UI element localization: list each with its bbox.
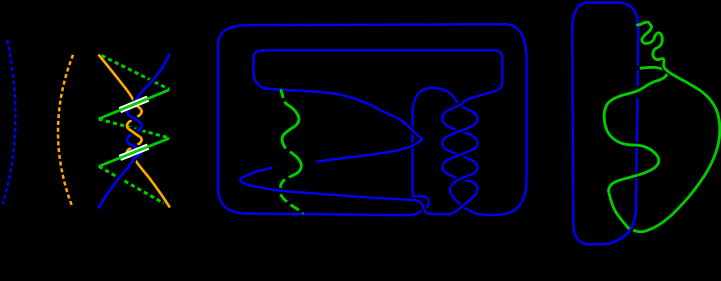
white band 2 bbox=[119, 144, 150, 161]
blue strand bbox=[98, 54, 170, 209]
orange dashed arc bbox=[58, 55, 73, 206]
under-gap of upper lens strand below green band bbox=[273, 162, 317, 168]
attachment gap on blue edge bbox=[636, 66, 639, 70]
blue strand C2: inner loop, swoop, lens, twist bbox=[240, 50, 502, 214]
wide band gap in blue edge at S-top crossing bbox=[637, 86, 641, 98]
green band: curl and big arc bbox=[633, 22, 720, 232]
orange-over patch at middle twist crossing bbox=[128, 129, 140, 138]
blue corner over green bbox=[606, 205, 637, 244]
green dashed band-back segment 3 bbox=[99, 166, 164, 203]
green band core 1 bbox=[99, 90, 170, 119]
blue dashed arc bbox=[3, 40, 16, 204]
green dashed band-back segment 1 bbox=[102, 56, 170, 90]
green band core 2 bbox=[99, 138, 169, 166]
C1-over patch at twist crossing 2 bbox=[442, 109, 477, 143]
green band helix piece A bbox=[281, 89, 283, 98]
green band helix piece C bbox=[289, 152, 301, 178]
blue edge restore at attachment 1 bbox=[636, 19, 639, 32]
green band helix piece D bbox=[280, 179, 285, 187]
orange strand bbox=[99, 55, 170, 208]
green band helix piece B bbox=[282, 102, 299, 149]
green dashed band-back segment 2 bbox=[99, 119, 170, 138]
white band 1 bbox=[119, 96, 150, 114]
green band: attachment 2, U-turn and S-wiggles bbox=[604, 67, 667, 229]
blue unknot (stadium) bbox=[572, 3, 638, 245]
C1-over patch at twist crossing 4 bbox=[450, 158, 477, 197]
green band helix (dashed hidden tail) bbox=[280, 194, 303, 213]
blue strand C1: outer boundary, curl, arch, twist bbox=[218, 24, 527, 215]
green tip at attachment 1 bbox=[636, 23, 641, 27]
